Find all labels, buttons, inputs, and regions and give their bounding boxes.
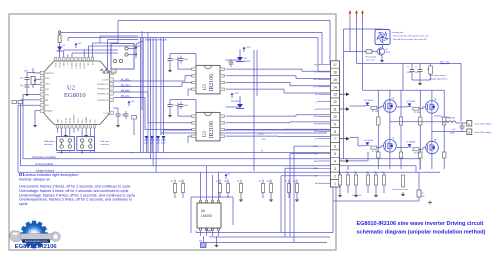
svg-text:TFB: TFB <box>45 94 49 96</box>
svg-text:Temperature feedback: Temperature feedback <box>32 156 57 159</box>
svg-text:OSC2: OSC2 <box>45 84 51 86</box>
svg-text:4148: 4148 <box>161 143 165 145</box>
svg-text:R? 10R: R? 10R <box>414 112 421 114</box>
svg-text:Sine 220V output: Sine 220V output <box>475 123 492 126</box>
svg-text:RR_LIN: RR_LIN <box>121 96 129 98</box>
svg-text:R?: R? <box>338 172 340 174</box>
svg-text:11: 11 <box>333 108 337 112</box>
svg-text:R?: R? <box>216 181 218 183</box>
svg-text:4.7uF: 4.7uF <box>173 105 179 107</box>
svg-text:LIN: LIN <box>314 109 318 111</box>
svg-text:15p: 15p <box>20 85 23 87</box>
svg-text:cooling fan: cooling fan <box>393 32 404 34</box>
svg-text:7: 7 <box>334 137 336 141</box>
svg-text:HIN: HIN <box>314 161 318 163</box>
svg-text:Overtemperature: flashes 5 tim: Overtemperature: flashes 5 times, off fo… <box>19 198 132 202</box>
svg-text:SPWMOUT1: SPWMOUT1 <box>97 84 109 86</box>
svg-text:6: 6 <box>334 145 336 149</box>
svg-text:Soft start: Soft start <box>100 140 109 143</box>
svg-text:FR107: FR107 <box>244 61 251 63</box>
svg-text:Turn off the fan when less tha: Turn off the fan when less than 40 <box>393 38 428 41</box>
svg-text:2.2uF: 2.2uF <box>407 72 413 74</box>
svg-text:R? 10R: R? 10R <box>372 151 379 153</box>
svg-text:5: 5 <box>334 152 336 156</box>
svg-text:LCDD7: LCDD7 <box>84 63 86 69</box>
svg-text:schematic diagram (unipolar mo: schematic diagram (unipolar modulation m… <box>357 229 486 235</box>
svg-text:MOD2: MOD2 <box>66 118 68 123</box>
svg-text:U6: U6 <box>201 209 205 213</box>
svg-text:R? 10R: R? 10R <box>414 153 421 155</box>
svg-text:15p: 15p <box>20 78 23 80</box>
svg-text:10: 10 <box>333 115 337 119</box>
svg-text:14: 14 <box>333 85 337 89</box>
svg-text:SPWMEN: SPWMEN <box>74 114 76 123</box>
svg-text:EG8010.IR2106: EG8010.IR2106 <box>15 244 57 250</box>
svg-text:Current feedback: Current feedback <box>35 163 54 166</box>
svg-text:banyongwang.com: banyongwang.com <box>25 239 48 243</box>
svg-text:Turn on the fan when greater t: Turn on the fan when greater than +45 <box>393 35 430 38</box>
svg-text:TFB: TFB <box>314 131 318 133</box>
svg-text:SPWMOUT2: SPWMOUT2 <box>97 88 109 90</box>
svg-text:LCDD4: LCDD4 <box>72 63 74 69</box>
svg-text:selection: selection <box>44 143 53 146</box>
svg-text:RR_HIN: RR_HIN <box>121 90 130 92</box>
svg-text:MOD1: MOD1 <box>70 118 72 123</box>
svg-text:12: 12 <box>333 100 337 104</box>
svg-text:2x 1N4148: 2x 1N4148 <box>364 140 373 142</box>
svg-text:16: 16 <box>333 70 337 74</box>
svg-text:RL_LIN: RL_LIN <box>121 85 129 87</box>
svg-text:R?: R? <box>171 181 173 183</box>
svg-text:Sine 220V output: Sine 220V output <box>475 131 492 134</box>
svg-text:FANEN: FANEN <box>85 116 88 123</box>
svg-text:4: 4 <box>334 159 336 163</box>
svg-text:LCDD6: LCDD6 <box>80 63 82 69</box>
svg-text:GND: GND <box>313 79 318 81</box>
svg-text:15: 15 <box>333 78 337 82</box>
svg-text:SCLK: SCLK <box>59 62 61 68</box>
svg-text:R? 10R: R? 10R <box>372 111 379 113</box>
svg-text:RL_HIN: RL_HIN <box>121 79 129 81</box>
svg-text:EG8010-IR2106 sine wave invert: EG8010-IR2106 sine wave inverter Driving… <box>357 221 484 227</box>
svg-text:Conduction area: Conduction area <box>392 188 409 191</box>
svg-text:9: 9 <box>334 122 336 126</box>
svg-text:+45 / +40: +45 / +40 <box>366 59 375 61</box>
svg-text:17: 17 <box>333 63 337 67</box>
svg-text:U3: U3 <box>203 131 208 138</box>
svg-text:OSC1: OSC1 <box>45 78 51 80</box>
svg-text:+12V: +12V <box>234 93 240 95</box>
svg-text:2x 1N4148: 2x 1N4148 <box>406 101 415 103</box>
svg-text:Sine wave output: Sine wave output <box>429 74 446 77</box>
svg-text:R?: R? <box>366 172 368 174</box>
svg-text:VDD: VDD <box>45 89 50 91</box>
svg-text:SPWMOUT4: SPWMOUT4 <box>97 100 109 102</box>
svg-text:VFB: VFB <box>314 116 319 118</box>
svg-text:+5V: +5V <box>131 101 135 103</box>
svg-text:U3: U3 <box>203 84 208 91</box>
svg-text:1: 1 <box>334 182 336 186</box>
svg-text:FRQADJ: FRQADJ <box>45 110 53 113</box>
svg-text:SPWMOUT3: SPWMOUT3 <box>97 93 109 95</box>
svg-text:2SK2850: 2SK2850 <box>434 116 442 118</box>
svg-text:Normal: always on: Normal: always on <box>19 177 50 181</box>
svg-text:LM393: LM393 <box>201 214 212 218</box>
svg-text:U2: U2 <box>67 85 75 92</box>
svg-text:VCC: VCC <box>313 87 318 89</box>
svg-text:N: N <box>468 130 470 134</box>
svg-text:IR2106: IR2106 <box>209 74 215 91</box>
svg-text:LCDD5: LCDD5 <box>76 63 78 69</box>
svg-text:IR2106: IR2106 <box>209 121 215 138</box>
svg-text:R?: R? <box>237 181 239 183</box>
svg-text:4148: 4148 <box>144 143 148 145</box>
svg-text:2x 1N4148: 2x 1N4148 <box>364 100 373 102</box>
svg-text:8: 8 <box>334 130 336 134</box>
svg-text:Temp switch: Temp switch <box>365 56 376 59</box>
svg-text:R?: R? <box>259 181 261 183</box>
svg-text:C?: C? <box>415 67 417 69</box>
svg-text:TEST: TEST <box>78 118 80 124</box>
svg-text:630V: 630V <box>450 133 455 135</box>
svg-text:R?: R? <box>382 172 384 174</box>
svg-text:EG8010: EG8010 <box>64 92 86 99</box>
svg-text:2: 2 <box>334 174 336 178</box>
svg-text:L: 1A100R: L: 1A100R <box>446 117 456 120</box>
svg-text:PWMTYP: PWMTYP <box>45 73 54 75</box>
svg-text:R? 10K x6: R? 10K x6 <box>352 195 362 197</box>
svg-text:XCLK: XCLK <box>55 62 57 68</box>
svg-text:cycle: cycle <box>19 202 28 206</box>
svg-text:LCDEN: LCDEN <box>102 79 109 81</box>
svg-text:R?: R? <box>374 172 376 174</box>
svg-text:3: 3 <box>334 167 336 171</box>
svg-text:2SC: 2SC <box>314 64 318 66</box>
svg-text:selection: selection <box>100 143 109 146</box>
svg-text:voltage adjustment: voltage adjustment <box>429 78 448 81</box>
svg-text:4M: 4M <box>199 241 202 243</box>
svg-text:R?: R? <box>346 172 348 174</box>
svg-text:+12V: +12V <box>246 47 252 49</box>
svg-text:C?: C? <box>407 67 409 69</box>
svg-text:R?: R? <box>354 172 356 174</box>
svg-text:4.7uF: 4.7uF <box>173 59 179 61</box>
svg-text:LED: LED <box>90 119 92 123</box>
svg-text:Modulation: Modulation <box>44 140 55 143</box>
svg-text:220u: 220u <box>415 72 419 74</box>
svg-text:VCC: VCC <box>94 119 96 124</box>
svg-text:R?: R? <box>427 69 429 71</box>
svg-text:VVREF: VVREF <box>102 73 109 75</box>
svg-text:VFB: VFB <box>45 105 50 107</box>
svg-text:2x 1N4148: 2x 1N4148 <box>406 142 415 144</box>
svg-text:13: 13 <box>333 93 337 97</box>
svg-text:12M: 12M <box>24 71 28 73</box>
svg-text:R? 1K: R? 1K <box>258 134 264 136</box>
svg-text:+5V: +5V <box>78 43 82 45</box>
svg-text:GND: GND <box>57 118 59 123</box>
svg-text:LCDB: LCDB <box>103 113 109 115</box>
